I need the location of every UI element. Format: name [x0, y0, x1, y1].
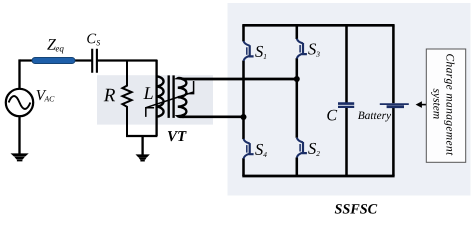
capacitor C_S: [92, 49, 97, 73]
node dot at leg1 / bottom AC wire: [241, 114, 247, 120]
leg 4 (battery) segments: [392, 25, 395, 176]
top AC wire from secondary to bridge: [183, 78, 297, 81]
switch S2: [297, 138, 307, 158]
capacitor C plates: [338, 102, 354, 105]
bottom AC wire from secondary to bridge: [183, 115, 244, 118]
switch S4: [244, 139, 254, 159]
arrow from charge management system: [421, 104, 427, 106]
label S3: [308, 43, 316, 54]
wire top horizontal left: [20, 59, 93, 61]
leg 1 segments: [242, 25, 245, 176]
primary winding bumps: [157, 76, 164, 116]
transformer core: [169, 75, 174, 118]
label Z_eq: [47, 39, 56, 49]
leg 2 segments: [296, 25, 299, 176]
label C_S: [87, 34, 96, 44]
switch S1: [244, 41, 254, 61]
ground (left): [11, 153, 29, 161]
label Charge management system (rotated): [444, 54, 454, 155]
wire AC source to ground: [18, 116, 20, 153]
label L: [143, 87, 152, 99]
ground (center): [136, 154, 150, 161]
bridge bottom rail: [242, 175, 394, 178]
label VT: [168, 131, 187, 141]
label R: [104, 89, 115, 101]
leg 3 (C) segments: [345, 25, 348, 176]
transformer VT secondary winding: [178, 78, 187, 117]
label C: [327, 110, 337, 121]
charge management system box: [426, 49, 465, 162]
label S1: [255, 46, 263, 57]
label Battery: [358, 112, 391, 122]
node dot at leg2 / top AC wire: [294, 76, 300, 82]
label SSFSC: [335, 204, 378, 214]
battery plates: [380, 103, 409, 105]
label V_AC: [37, 90, 47, 100]
label S4: [255, 144, 263, 155]
switch S3: [297, 39, 307, 59]
bridge top rail: [242, 24, 394, 27]
SSFSC panel: [228, 3, 471, 196]
variable arrow through VT: [146, 81, 194, 117]
label S2: [308, 143, 316, 154]
wire to ground (center): [141, 136, 143, 155]
bottom wire of RL parallel: [126, 135, 157, 137]
wire top horizontal right of Cs: [97, 59, 157, 61]
resistor R: [122, 60, 131, 136]
panel behind RLC / transformer: [97, 75, 213, 124]
inductor L / transformer primary leg: [155, 60, 157, 136]
AC source V: [6, 89, 33, 116]
impedance Z_eq: [32, 57, 75, 63]
wire AC source to top: [18, 59, 20, 88]
